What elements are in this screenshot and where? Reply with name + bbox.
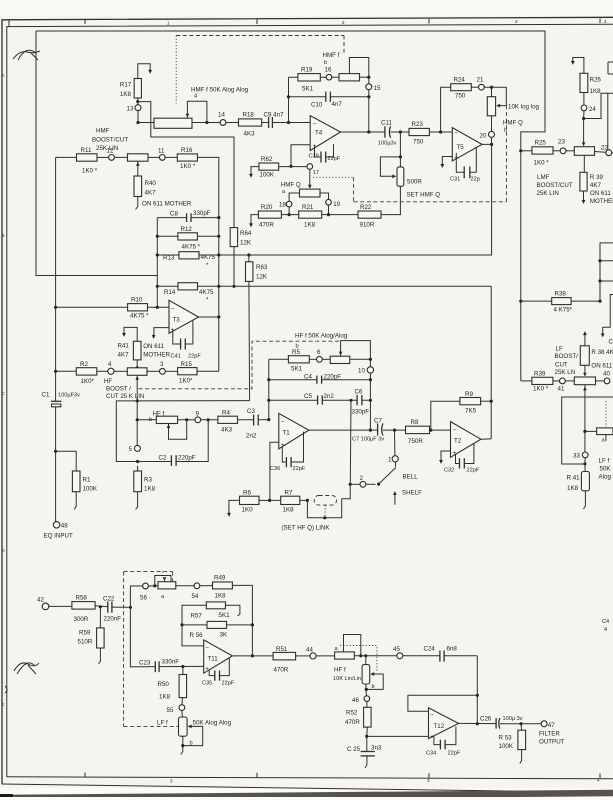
resistor R51: [273, 646, 310, 674]
svg-text:C23: C23: [139, 660, 151, 667]
svg-text:22pF: 22pF: [188, 354, 201, 360]
dashed box HMF Q: [313, 106, 506, 202]
resistor R24: [451, 77, 472, 100]
resistor R4: [218, 410, 254, 434]
capacitor C7 electrolytic: [352, 418, 384, 443]
svg-text:1K0 *: 1K0 *: [82, 168, 98, 175]
resistor R58: [72, 595, 108, 624]
svg-text:500R: 500R: [407, 179, 422, 186]
svg-text:4K7: 4K7: [118, 352, 130, 359]
resistor R13: [163, 252, 250, 269]
svg-text:6n8: 6n8: [447, 646, 458, 653]
svg-text:C39: C39: [309, 154, 319, 160]
label HMF BOOST/CUT 25K LIN: [92, 128, 128, 153]
svg-text:R26: R26: [590, 77, 602, 84]
dotted gang link: [340, 646, 377, 673]
svg-text:ON 611: ON 611: [590, 190, 611, 197]
svg-text:220pF: 220pF: [324, 374, 342, 381]
svg-text:R13: R13: [163, 255, 175, 262]
svg-text:R38: R38: [555, 291, 567, 298]
svg-text:1K8: 1K8: [283, 507, 295, 514]
switch BELL/SHELF: [366, 462, 422, 505]
svg-text:C22: C22: [103, 596, 115, 603]
resistor R8: [406, 419, 430, 445]
resistor R10: [54, 297, 169, 320]
wire R21-R22: [322, 213, 358, 216]
op-amp T1: [279, 413, 309, 449]
svg-text:1K0 *: 1K0 *: [534, 160, 550, 167]
svg-text:R23: R23: [412, 121, 424, 128]
svg-text:10K Lin/Lin: 10K Lin/Lin: [333, 676, 361, 682]
wire T2 plus input: [439, 451, 450, 464]
node 48 EQ INPUT: [44, 522, 73, 540]
svg-text:21: 21: [477, 77, 484, 84]
wire R20-R21: [281, 213, 298, 216]
svg-text:14: 14: [218, 112, 225, 119]
capacitor C8 330pF: [157, 210, 220, 222]
wire T12 output row: [459, 722, 542, 725]
svg-text:CUT 25 K LIN: CUT 25 K LIN: [106, 393, 144, 400]
svg-text:−: −: [205, 644, 209, 651]
svg-text:R 38 4K: R 38 4K: [591, 349, 613, 356]
svg-text:MOTHER: MOTHER: [590, 198, 613, 205]
dashed box HMF f pots: [176, 36, 344, 104]
potentiometer LMF BOOST/CUT 25K LIN: [566, 147, 606, 156]
svg-text:C6: C6: [355, 389, 363, 396]
svg-text:C4: C4: [602, 619, 609, 625]
svg-text:C24: C24: [424, 646, 436, 653]
capacitor C25 3n3: [347, 736, 382, 768]
resistor R7: [281, 490, 309, 514]
node 44: [306, 647, 335, 660]
capacitor C2 220pF: [138, 420, 209, 466]
node 10: [358, 367, 374, 432]
svg-text:SHELF: SHELF: [402, 490, 422, 497]
svg-text:−: −: [171, 305, 175, 312]
capacitor C22 220nF: [103, 596, 132, 623]
svg-text:T11: T11: [208, 656, 219, 663]
svg-text:4n7: 4n7: [332, 101, 343, 108]
component fragment right edge top: [608, 62, 613, 74]
svg-text:ON 611 MOTHER: ON 611 MOTHER: [142, 201, 192, 208]
svg-text:C5: C5: [304, 393, 312, 400]
node 16: [325, 67, 332, 80]
resistor R40: [134, 176, 192, 210]
wire R16 to block vertical: [197, 157, 218, 371]
svg-text:LF: LF: [556, 346, 563, 353]
potentiometer HMF f 50K (a): [154, 94, 207, 129]
svg-text:R51: R51: [276, 646, 288, 653]
svg-text:1K8: 1K8: [144, 486, 156, 493]
svg-text:13: 13: [127, 106, 134, 113]
svg-text:R12: R12: [181, 226, 193, 233]
op-amp T2: [451, 422, 481, 458]
wire T4 output row: [341, 130, 453, 133]
svg-text:R4: R4: [222, 410, 230, 417]
resistor R39 vertical (LMF): [580, 155, 613, 205]
svg-text:BOOST /: BOOST /: [106, 386, 131, 393]
resistor R22: [358, 204, 381, 229]
svg-text:−: −: [313, 120, 317, 127]
resistor R1 branch: [54, 450, 98, 510]
node 13: [127, 105, 142, 113]
svg-text:HMF Q: HMF Q: [503, 120, 523, 127]
wire R14 row down to T2 output: [490, 286, 493, 439]
svg-text:470R: 470R: [345, 719, 360, 726]
wire T3 output: [199, 315, 221, 318]
capacitor C39 22pF (T4 comp): [309, 144, 341, 163]
svg-text:17: 17: [313, 170, 319, 176]
svg-text:R18: R18: [243, 112, 255, 119]
svg-text:SET HMF Q: SET HMF Q: [407, 192, 441, 199]
potentiometer (56-54) with hook: [155, 576, 194, 601]
potentiometer HF f gang b: [362, 656, 383, 696]
resistor R17: [120, 79, 141, 99]
link SET HF Q: [282, 496, 342, 532]
wire LF wiper column down: [583, 385, 587, 452]
node 20: [480, 116, 495, 145]
svg-text:C41: C41: [171, 354, 181, 360]
hand squiggle mid-left: [5, 663, 39, 693]
svg-text:100µF3v: 100µF3v: [58, 393, 80, 399]
svg-text:R22: R22: [360, 204, 372, 211]
svg-text:b: b: [372, 684, 375, 690]
capacitor C10: [289, 90, 371, 132]
svg-text:5K1: 5K1: [219, 612, 231, 619]
wire R63 bottom to bracket: [137, 400, 249, 402]
svg-text:C7 100µF 3v: C7 100µF 3v: [352, 437, 384, 443]
svg-text:R17: R17: [120, 82, 132, 89]
svg-text:−: −: [430, 712, 434, 719]
svg-text:R21: R21: [302, 204, 314, 211]
label LF f 50K Alog: [599, 458, 612, 481]
potentiometer HF f 50K (b): [322, 341, 372, 367]
svg-text:C11: C11: [381, 120, 392, 127]
svg-text:3: 3: [160, 361, 164, 368]
svg-text:R24: R24: [454, 77, 466, 84]
svg-text:C8: C8: [170, 211, 178, 218]
svg-text:R16: R16: [181, 147, 193, 154]
resistor R56: [180, 621, 252, 639]
svg-text:C4: C4: [304, 374, 312, 381]
svg-text:A: A: [2, 73, 5, 78]
svg-text:R62: R62: [261, 156, 273, 163]
node 5: [129, 445, 141, 453]
svg-text:C10: C10: [311, 102, 323, 109]
svg-text:1K0 *: 1K0 *: [180, 163, 196, 170]
resistor R19: [289, 67, 327, 93]
svg-text:R39: R39: [534, 371, 546, 378]
wire C22 up to node56 row: [130, 586, 142, 607]
svg-text:4K75: 4K75: [201, 254, 216, 261]
svg-text:12K: 12K: [256, 274, 268, 281]
label LMF BOOST/CUT 25K LIN: [537, 174, 573, 197]
node 15: [366, 77, 381, 92]
node 46: [352, 696, 370, 704]
svg-text:R2: R2: [80, 361, 88, 368]
svg-text:(SET HF Q) LINK: (SET HF Q) LINK: [282, 525, 331, 532]
svg-text:BELL: BELL: [403, 474, 419, 481]
svg-text:47: 47: [548, 722, 555, 729]
svg-text:5: 5: [129, 446, 133, 453]
svg-text:−: −: [453, 427, 457, 434]
svg-text:R9: R9: [465, 391, 473, 398]
svg-text:R19: R19: [301, 67, 313, 74]
op-amp T4: [310, 116, 340, 151]
wire T12 feedback loop: [408, 656, 479, 726]
potentiometer HMF f (b): [323, 52, 371, 81]
node 41: [553, 378, 565, 393]
node 22: [601, 145, 613, 156]
capacitor C3 2n2: [246, 408, 269, 440]
wire T5 plus input: [440, 157, 452, 169]
svg-text:T2: T2: [454, 438, 462, 445]
svg-text:C34: C34: [426, 751, 436, 757]
svg-text:T4: T4: [315, 130, 323, 137]
svg-text:C36: C36: [270, 466, 280, 472]
node 42: [37, 597, 72, 610]
svg-text:50K Alog Alog: 50K Alog Alog: [193, 720, 232, 727]
wire node21 to pot wiper: [484, 86, 506, 108]
resistor R38 vertical (LF) with up arrow: [580, 331, 613, 376]
svg-text:C 25: C 25: [347, 746, 361, 753]
wire bracket around node 5: [116, 401, 139, 463]
capacitor C34 22pF (T12 comp): [426, 727, 461, 757]
wire T1 plus input: [270, 442, 279, 500]
svg-text:1K0 *: 1K0 *: [533, 386, 549, 393]
resistor R26 with hook: [571, 58, 602, 96]
svg-text:R 56: R 56: [190, 632, 204, 639]
svg-text:HF: HF: [104, 378, 112, 385]
resistor R50: [158, 667, 187, 701]
resistor R23: [409, 121, 429, 146]
label HMF f 50K Alog Alog: [191, 87, 249, 94]
svg-text:4: 4: [604, 627, 607, 633]
label HF f 50K Alog/Alog: [295, 333, 348, 350]
svg-text:HMF f 50K Alog Alog: HMF f 50K Alog Alog: [191, 87, 249, 94]
svg-text:R50: R50: [158, 681, 170, 688]
svg-text:1K0: 1K0: [242, 507, 254, 514]
potentiometer LF f fragment right edge: [585, 401, 613, 444]
resistor R64: [230, 228, 252, 247]
svg-text:4: 4: [108, 361, 112, 368]
resistor R5: [269, 349, 310, 373]
svg-text:4K7: 4K7: [590, 182, 602, 189]
node 47 FILTER OUTPUT: [539, 721, 565, 746]
svg-text:22pF: 22pF: [448, 751, 461, 757]
svg-text:C35: C35: [202, 681, 212, 687]
svg-text:4K3: 4K3: [244, 131, 256, 138]
svg-text:12: 12: [107, 148, 114, 155]
svg-text:R52: R52: [346, 710, 358, 717]
svg-text:23: 23: [558, 139, 565, 146]
node 17: [307, 164, 319, 176]
svg-text:T5: T5: [457, 144, 465, 151]
capacitor C1 electrolytic: [42, 392, 81, 407]
svg-text:HF f 50K Alog/Alog: HF f 50K Alog/Alog: [295, 333, 348, 340]
svg-text:EQ INPUT: EQ INPUT: [44, 533, 73, 540]
svg-text:C31: C31: [450, 177, 460, 183]
node 24: [581, 93, 596, 121]
svg-text:C7: C7: [374, 418, 382, 425]
svg-text:330nF: 330nF: [162, 659, 180, 666]
svg-text:R57: R57: [191, 613, 203, 620]
wire T11 output row: [232, 655, 273, 657]
svg-text:22pF: 22pF: [467, 468, 480, 474]
wire block left vertical: [156, 218, 159, 308]
resistor R63: [246, 255, 268, 401]
svg-text:5K1: 5K1: [291, 366, 303, 373]
svg-text:ON 611: ON 611: [143, 343, 164, 350]
svg-text:B: B: [2, 233, 5, 238]
svg-text:T1: T1: [283, 430, 291, 437]
hand squiggle top-left: [13, 50, 40, 60]
potentiometer HMF BOOST/CUT 25K LIN: [114, 154, 159, 176]
resistor R6: [227, 490, 259, 517]
svg-text:R3: R3: [144, 477, 152, 484]
resistor R18: [239, 112, 262, 138]
svg-text:R10: R10: [131, 297, 143, 304]
op-amp T5: [452, 128, 482, 162]
svg-text:22pF: 22pF: [328, 156, 341, 162]
svg-text:R6: R6: [243, 490, 251, 497]
svg-text:19: 19: [333, 201, 340, 208]
svg-text:−: −: [281, 418, 285, 425]
svg-text:9: 9: [196, 411, 200, 418]
node 14: [218, 112, 226, 126]
node 1: [388, 430, 398, 463]
svg-text:4K3: 4K3: [221, 427, 233, 434]
capacitor C6 330pF: [351, 389, 370, 416]
wire node24 to right edge components: [584, 93, 613, 150]
svg-text:R1: R1: [83, 477, 91, 484]
svg-text:C9 4n7: C9 4n7: [264, 112, 285, 119]
wire C5/C6 junction to BELL switch: [349, 400, 352, 484]
svg-text:750: 750: [455, 93, 466, 100]
svg-text:100K: 100K: [260, 172, 275, 179]
wire T4 plus input: [291, 145, 310, 167]
svg-text:1K8: 1K8: [567, 485, 579, 492]
svg-text:−: −: [454, 130, 458, 137]
wire HMF minus row: [138, 121, 310, 124]
capacitor C5 2n2: [269, 393, 353, 405]
capacitor C4 220pF: [269, 374, 371, 384]
svg-text:1K8: 1K8: [304, 222, 316, 229]
capacitor C24 6n8: [424, 646, 478, 662]
svg-text:T12: T12: [434, 723, 445, 730]
capacitor C32 22pF (T2 comp): [444, 443, 480, 473]
svg-text:HF f: HF f: [334, 667, 346, 674]
resistor R41 with mother hook: [118, 327, 171, 369]
dashed box LF f group: [124, 572, 179, 727]
wire: top-left corner long loop: [36, 31, 545, 381]
node 54: [192, 583, 213, 600]
svg-text:b: b: [504, 128, 507, 134]
wire: left input bus vertical: [55, 157, 57, 521]
svg-text:BOOST/CUT: BOOST/CUT: [92, 137, 128, 144]
svg-text:510R: 510R: [78, 639, 93, 646]
svg-text:12K: 12K: [240, 240, 252, 247]
wire node13 to main row: [136, 111, 139, 124]
label SET HMF Q: [407, 192, 441, 199]
svg-text:100K: 100K: [499, 743, 514, 750]
svg-text:10: 10: [358, 368, 365, 375]
svg-text:R8: R8: [411, 419, 419, 426]
resistor R3: [134, 466, 156, 510]
node 9: [187, 411, 218, 423]
wire T5 output to R13 row: [157, 143, 493, 255]
resistor R52: [345, 701, 371, 738]
resistor R2: [54, 361, 97, 385]
wire T1 output row: [309, 429, 451, 432]
svg-text:ON 611: ON 611: [591, 363, 612, 370]
svg-text:22pF: 22pF: [222, 681, 235, 687]
node 3: [160, 361, 166, 374]
svg-text:R15: R15: [181, 361, 193, 368]
wire zigzag R17 junction to R64: [138, 102, 234, 228]
svg-text:R5: R5: [292, 349, 300, 356]
svg-text:750: 750: [413, 139, 424, 146]
wire node2 to link bracket: [342, 484, 351, 499]
label HMF Q b: [503, 120, 523, 134]
svg-text:R59: R59: [79, 630, 91, 637]
svg-text:220pF: 220pF: [178, 455, 196, 462]
resistor R62: [249, 156, 307, 179]
node 33: [573, 452, 588, 464]
wire right edge ladder: [598, 243, 613, 301]
node 45: [393, 646, 440, 659]
svg-text:1K0*: 1K0*: [179, 378, 193, 385]
capacitor C26 electrolytic: [480, 716, 523, 729]
wire R24 feedback leg: [441, 87, 451, 132]
svg-text:C32: C32: [444, 468, 454, 474]
wire T12 plus row: [367, 735, 429, 737]
svg-text:1K8: 1K8: [120, 91, 132, 98]
capacitor C36 22pF (T1 comp): [270, 432, 306, 472]
svg-text:10K log log: 10K log log: [508, 104, 540, 111]
svg-text:BOOST/CUT: BOOST/CUT: [537, 182, 573, 189]
potentiometer HF f 10K Lin/Lin gang a: [333, 635, 397, 683]
wire HF left vertical: [267, 359, 270, 421]
svg-text:50K: 50K: [600, 466, 612, 473]
svg-text:4K75: 4K75: [199, 289, 214, 296]
svg-text:R7: R7: [285, 490, 293, 497]
node 2: [349, 475, 366, 487]
svg-text:300R: 300R: [74, 616, 89, 623]
svg-text:1K0*: 1K0*: [81, 378, 95, 385]
supply hook above R17: [138, 64, 152, 79]
svg-text:MOTHER: MOTHER: [143, 352, 170, 359]
svg-text:1: 1: [388, 457, 392, 464]
svg-text:4K75 *: 4K75 *: [182, 244, 201, 251]
wire R64 column: [232, 247, 235, 288]
capacitor C9: [262, 112, 289, 128]
svg-text:b: b: [190, 741, 193, 747]
resistor R57: [182, 602, 240, 625]
svg-text:T3: T3: [173, 317, 181, 324]
svg-text:22: 22: [601, 145, 608, 152]
svg-text:20: 20: [480, 133, 487, 140]
potentiometer HF BOOST/CUT 25K LIN: [114, 368, 159, 446]
svg-text:56: 56: [140, 595, 147, 602]
svg-text:1K8: 1K8: [215, 593, 227, 600]
resistor R59: [78, 607, 105, 664]
svg-text:44: 44: [306, 647, 313, 654]
svg-text:FILTER: FILTER: [539, 731, 560, 738]
node 18: [279, 193, 300, 215]
svg-text:5K1: 5K1: [302, 86, 314, 93]
svg-text:55: 55: [167, 707, 174, 714]
